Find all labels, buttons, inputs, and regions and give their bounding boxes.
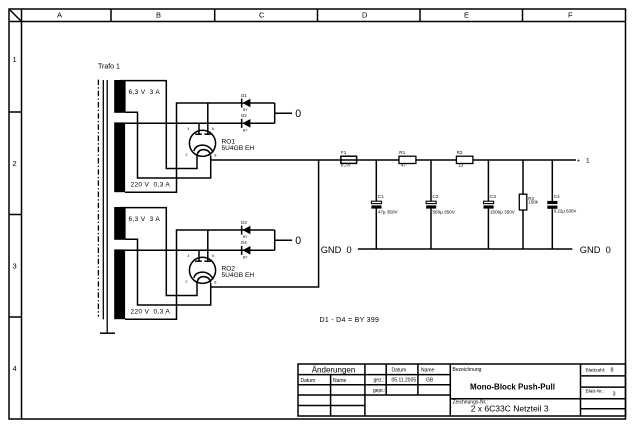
svg-text:150k: 150k <box>528 200 538 205</box>
svg-text:6,3 V 3 A: 6,3 V 3 A <box>129 89 161 96</box>
wire RO2 left anode tap <box>198 250 200 261</box>
svg-text:F: F <box>568 11 573 20</box>
wire 220V bottom to diode D1 and RO1 anode <box>125 103 275 192</box>
wire from B+ rail down to RO2 output <box>211 160 319 287</box>
svg-text:Name: Name <box>421 368 435 374</box>
svg-text:2: 2 <box>186 153 188 157</box>
svg-text:B: B <box>156 11 161 20</box>
svg-text:Datum: Datum <box>301 378 316 384</box>
wire RO2 right anode tap <box>207 230 209 261</box>
transformer core earth bar <box>100 332 115 334</box>
svg-text:2 x 6C33C Netzteil 3: 2 x 6C33C Netzteil 3 <box>471 404 549 414</box>
svg-text:8: 8 <box>611 367 614 373</box>
svg-text:2: 2 <box>13 159 17 168</box>
svg-text:Trafo 1: Trafo 1 <box>98 64 120 71</box>
rectifier tube RO2 5U4GB <box>186 254 255 285</box>
transformer winding 6.3V (for RO1) <box>114 80 160 113</box>
capacitor C1 <box>371 160 398 249</box>
svg-text:Bezeichnung: Bezeichnung <box>453 367 482 373</box>
wire 6.3V top to RO2 filament left <box>120 208 197 296</box>
svg-text:6: 6 <box>212 127 214 131</box>
svg-text:GND 0: GND 0 <box>580 245 611 255</box>
transformer winding 6.3V (for RO2) <box>114 207 160 240</box>
resistor R3 <box>519 160 538 249</box>
svg-text:D3: D3 <box>241 220 247 225</box>
transformer core line 2 <box>106 80 108 333</box>
diode D2 <box>241 113 251 132</box>
svg-text:+: + <box>577 159 581 165</box>
svg-text:D: D <box>362 11 368 20</box>
svg-text:C4: C4 <box>554 194 560 199</box>
resistor R1 <box>399 150 416 168</box>
svg-text:Mono-Block Push-Pull: Mono-Block Push-Pull <box>470 382 555 391</box>
svg-text:5U4GB EH: 5U4GB EH <box>222 145 255 152</box>
transformer winding 220V (for RO1) <box>114 122 170 192</box>
svg-text:0: 0 <box>295 108 301 120</box>
rectifier tube RO1 5U4GB <box>186 127 255 158</box>
svg-text:BY: BY <box>243 235 248 239</box>
wire 6.3V top to RO1 filament left <box>120 81 197 169</box>
GND rail wire <box>358 248 572 250</box>
svg-text:3: 3 <box>13 262 17 271</box>
svg-text:R2: R2 <box>457 150 463 155</box>
svg-text:8: 8 <box>215 154 217 158</box>
capacitor C4 <box>547 160 576 249</box>
svg-text:gez.:: gez.: <box>374 377 385 383</box>
svg-text:4: 4 <box>188 127 190 131</box>
svg-text:BY: BY <box>243 255 248 259</box>
svg-text:D1: D1 <box>241 93 247 98</box>
transformer core dash-dot line <box>97 80 99 317</box>
svg-text:1500µ 350V: 1500µ 350V <box>490 209 516 214</box>
wire RO1 left anode tap <box>198 123 200 134</box>
svg-text:Blatt-Nr.:: Blatt-Nr.: <box>586 388 605 394</box>
diode D1 <box>241 93 251 112</box>
svg-text:BY: BY <box>243 128 248 132</box>
svg-text:220 V 0,3 A: 220 V 0,3 A <box>131 182 171 189</box>
svg-text:R1: R1 <box>399 150 405 155</box>
svg-text:D1 - D4 = BY 399: D1 - D4 = BY 399 <box>320 317 380 324</box>
wire diode pair join <box>274 230 276 250</box>
svg-text:2: 2 <box>186 280 188 284</box>
svg-text:6: 6 <box>212 254 214 258</box>
svg-text:Datum: Datum <box>392 368 407 374</box>
svg-text:GND 0: GND 0 <box>321 245 352 255</box>
wire 6.3V bottom to RO1 filament right <box>126 112 211 178</box>
svg-text:0: 0 <box>295 235 301 247</box>
svg-text:5U4GB EH: 5U4GB EH <box>222 272 255 279</box>
svg-text:Änderungen: Änderungen <box>312 366 356 375</box>
svg-text:C2: C2 <box>433 194 439 199</box>
diode D3 <box>241 220 251 239</box>
svg-text:560µ 350V: 560µ 350V <box>433 209 456 214</box>
svg-text:47: 47 <box>401 163 407 168</box>
svg-text:Name: Name <box>333 378 347 384</box>
svg-text:C3: C3 <box>490 194 496 199</box>
svg-text:gepr.:: gepr.: <box>373 388 386 394</box>
svg-text:220 V 0,3 A: 220 V 0,3 A <box>131 309 171 316</box>
svg-text:13: 13 <box>458 163 464 168</box>
svg-text:1: 1 <box>586 158 590 165</box>
capacitor C3 <box>484 160 516 249</box>
svg-text:1: 1 <box>13 55 17 64</box>
wire 6.3V bottom to RO2 filament right <box>126 239 211 305</box>
fuse F1 <box>341 150 357 168</box>
svg-text:D4: D4 <box>241 240 247 245</box>
svg-text:05.11.2005: 05.11.2005 <box>392 377 417 383</box>
svg-text:Blattzahl:: Blattzahl: <box>586 368 606 374</box>
diode D4 <box>241 240 251 259</box>
svg-text:GB: GB <box>426 377 434 383</box>
svg-text:47µ 350V: 47µ 350V <box>378 209 399 214</box>
svg-text:4: 4 <box>13 364 17 373</box>
svg-text:BY: BY <box>243 108 248 112</box>
resistor R2 <box>456 150 473 168</box>
svg-text:F1: F1 <box>341 150 347 155</box>
wire stub to node 0 <box>275 239 292 241</box>
title block <box>298 364 626 416</box>
wire 220V bottom to diode D3 and RO2 anode <box>125 230 275 319</box>
wire RO1 right anode tap <box>207 103 209 134</box>
svg-text:8: 8 <box>215 281 217 285</box>
svg-text:D2: D2 <box>241 113 247 118</box>
svg-text:4: 4 <box>188 254 190 258</box>
capacitor C2 <box>426 160 456 249</box>
transformer core line 1 <box>102 80 104 319</box>
svg-text:C: C <box>259 11 265 20</box>
svg-text:0,7A: 0,7A <box>341 163 351 168</box>
svg-text:0,22µ 630V: 0,22µ 630V <box>554 209 577 214</box>
svg-text:C1: C1 <box>378 194 384 199</box>
wire 220V top to diode D2 and RO1 anode <box>125 122 275 124</box>
wire diode pair join <box>274 103 276 123</box>
wire stub to node 0 <box>275 112 292 114</box>
wire 220V top to diode D4 and RO2 anode <box>125 249 275 251</box>
svg-text:A: A <box>57 11 62 20</box>
svg-text:6,3 V 3 A: 6,3 V 3 A <box>129 216 161 223</box>
B+ rail wire <box>211 159 576 161</box>
transformer winding 220V (for RO2) <box>114 249 170 319</box>
svg-text:E: E <box>464 11 469 20</box>
svg-text:3: 3 <box>613 391 616 397</box>
